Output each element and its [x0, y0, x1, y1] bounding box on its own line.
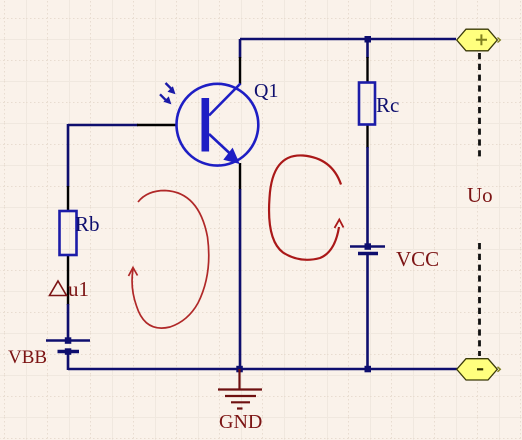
ground bar 3	[231, 401, 250, 403]
port + hexagon	[457, 29, 498, 51]
wire Rc branch upper	[366, 39, 369, 58]
wire VBB to bottom rail	[67, 351, 70, 370]
pin Rb bottom	[67, 254, 69, 305]
pin Rc bottom	[366, 124, 368, 148]
port - minus sign	[477, 368, 483, 370]
photo arrow 1	[166, 83, 172, 89]
ground bar 1	[218, 388, 262, 390]
ground bar 4	[237, 407, 243, 409]
junction top rail / Rc branch	[365, 36, 372, 43]
annotation loop left arrowhead	[129, 268, 138, 277]
port + nib	[498, 38, 501, 43]
wire Rb to VBB	[67, 304, 70, 341]
pin Rb top	[67, 186, 69, 212]
svg-text:VCC: VCC	[396, 247, 439, 271]
svg-text:Q1: Q1	[254, 80, 278, 102]
dashed link upper	[478, 53, 481, 157]
annotation loop right	[269, 155, 341, 259]
ground bar 2	[225, 395, 256, 397]
transistor Q1 emitter stroke	[209, 134, 238, 161]
ground stub	[238, 369, 240, 389]
transistor Q1 emitter arrowhead	[223, 148, 240, 164]
port - hexagon	[457, 359, 498, 380]
port - nib	[498, 367, 501, 372]
wire collector vertical	[239, 39, 242, 58]
transistor Q1 collector stroke	[209, 84, 241, 116]
svg-text:Rb: Rb	[75, 212, 100, 236]
pin Rc top	[366, 57, 368, 83]
battery VBB long plate	[46, 339, 90, 342]
junction bottom rail / VCC branch	[365, 366, 372, 373]
svg-text:Rc: Rc	[376, 93, 399, 117]
wire Rc to VCC	[366, 147, 369, 247]
resistor Rc	[359, 83, 375, 125]
junction VCC plate	[365, 243, 372, 250]
photo arrow 2	[160, 94, 166, 100]
battery VBB short plate	[58, 350, 80, 354]
junction VBB top plate	[65, 337, 72, 344]
transistor Q1 body circle	[177, 84, 259, 166]
wire base horizontal	[68, 124, 138, 127]
wire emitter vertical	[239, 189, 242, 369]
svg-text:Uo: Uo	[467, 183, 493, 207]
svg-text:VBB: VBB	[8, 347, 47, 368]
pin collector Q1	[239, 57, 241, 84]
dashed link lower	[478, 243, 481, 356]
svg-text:GND: GND	[219, 411, 262, 433]
wire VCC to bottom rail	[366, 253, 369, 369]
annotation loop left	[132, 191, 209, 329]
resistor Rb	[60, 211, 77, 255]
battery VCC long plate	[350, 245, 385, 248]
annotation triangle delta	[50, 281, 67, 296]
transistor Q1 base bar	[202, 98, 210, 152]
svg-text:u1: u1	[68, 277, 89, 301]
wire bottom rail	[68, 368, 457, 371]
port + plus sign	[476, 34, 487, 45]
annotation loop right arrowhead	[335, 220, 344, 229]
junction bottom rail / emitter	[236, 366, 243, 373]
battery VCC short plate	[358, 252, 378, 256]
wire left vertical upper	[67, 124, 70, 187]
wire top rail	[240, 38, 456, 41]
pin base Q1	[137, 124, 177, 126]
junction VBB bottom plate	[65, 348, 72, 355]
pin emitter Q1	[239, 163, 241, 190]
